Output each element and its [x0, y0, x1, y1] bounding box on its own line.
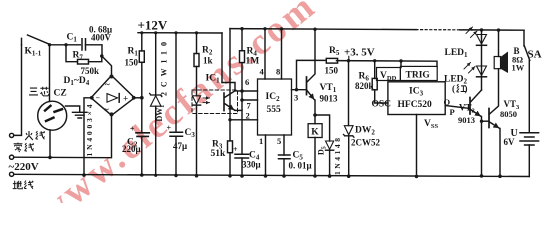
+3.5V rail — [337, 61, 438, 67]
pin 4 wire — [264, 29, 266, 79]
watermark diagonal text — [31, 0, 325, 232]
wire live terminal to switch column — [14, 45, 22, 136]
svg-text:CZ: CZ — [54, 89, 67, 99]
svg-text:+12V: +12V — [138, 18, 168, 33]
socket CZ circle — [38, 101, 67, 130]
svg-text:+: + — [123, 93, 128, 103]
svg-text:+: + — [130, 125, 135, 134]
LED2 (red) — [481, 45, 483, 77]
wire to bridge top — [102, 56, 112, 76]
IC3 HFC520 box — [388, 82, 445, 115]
svg-text:2CW52: 2CW52 — [351, 138, 380, 148]
battery U — [520, 133, 539, 145]
svg-text:1W: 1W — [512, 63, 525, 73]
node C1/R7 left — [64, 43, 67, 46]
svg-text:~: ~ — [104, 105, 109, 115]
svg-text:OSC: OSC — [372, 100, 392, 110]
chinese labels drawn as stroke glyphs — [13, 84, 466, 189]
resistor R2 — [196, 33, 198, 54]
diode D5 — [315, 115, 330, 141]
capacitor C4 — [235, 154, 249, 158]
svg-text:9013: 9013 — [458, 115, 475, 125]
node pin3 / R5 branch — [295, 88, 298, 91]
svg-text:5: 5 — [277, 136, 281, 146]
svg-text:+3. 5V: +3. 5V — [344, 47, 375, 59]
svg-text:750k: 750k — [81, 66, 100, 76]
label 红 (red) inside parens — [457, 84, 466, 92]
pin 5 wire / capacitor C5 — [283, 135, 285, 155]
svg-text:400V: 400V — [91, 33, 112, 43]
transistor VT2 — [469, 98, 471, 115]
terminal 地线 (earth) — [10, 172, 14, 176]
ground/bottom rail — [14, 174, 530, 176]
svg-text:1: 1 — [259, 136, 263, 146]
terminal 火线 (live) — [10, 133, 14, 137]
capacitor C1 — [82, 39, 86, 50]
bridge internal diode — [107, 94, 118, 103]
svg-text:~: ~ — [105, 80, 110, 90]
capacitor C3 — [175, 33, 177, 133]
svg-text:6V: 6V — [504, 137, 516, 147]
svg-text:HFC520: HFC520 — [398, 100, 433, 110]
+12V rail — [138, 32, 222, 34]
speaker B — [498, 30, 500, 56]
opto phototransistor — [223, 93, 225, 111]
wire switch to C1/R7 — [50, 44, 81, 46]
capacitor C2 — [141, 98, 143, 133]
socket slots — [45, 106, 62, 112]
TRIG box — [400, 66, 437, 80]
svg-text:K: K — [311, 128, 319, 138]
pin 3 wire to VT1 base — [292, 89, 307, 91]
wire col A (rail to pin2/R3) — [230, 29, 258, 120]
bridge rectifier D1~D4 — [91, 76, 135, 116]
zener DW1 — [155, 33, 157, 95]
svg-text:6: 6 — [245, 77, 249, 87]
node C1/R7 right — [100, 54, 104, 58]
resistor R3 — [229, 120, 231, 141]
svg-text:220μ: 220μ — [122, 144, 141, 154]
svg-text:9013: 9013 — [320, 94, 339, 104]
IC1 dashed box — [192, 90, 238, 114]
label 火线 (live wire) — [25, 131, 33, 140]
resistor R5 — [326, 58, 337, 63]
pin 8 wire — [281, 29, 283, 79]
VSS wire — [416, 115, 418, 177]
wire pin 6 — [242, 90, 258, 92]
main +6V top rail — [230, 29, 416, 30]
VDD drop wire — [400, 61, 402, 68]
svg-text:150: 150 — [325, 66, 339, 76]
+3.5V pointer arrow — [348, 56, 350, 60]
svg-text:555: 555 — [267, 105, 282, 115]
wire pin 7 — [242, 99, 258, 101]
svg-text:SA: SA — [528, 49, 542, 61]
node opto collector / pin6 — [240, 89, 244, 93]
opto light arrows — [203, 97, 210, 99]
node VT2 emitter to VT3 base — [480, 120, 483, 123]
bridge minus output wire — [84, 98, 91, 175]
node VT1 emitter / K / D5 — [313, 113, 317, 117]
svg-text:1k: 1k — [203, 56, 213, 66]
零线 neutral rail — [10, 155, 14, 159]
opto LED inside IC1 — [192, 96, 200, 104]
zener DW2 — [348, 61, 350, 126]
label 三芯 (three core) — [29, 88, 38, 95]
switch K1-1 — [22, 35, 50, 45]
resistor R6 — [374, 61, 376, 79]
svg-text:150: 150 — [125, 58, 139, 68]
label 零线 (neutral wire) — [14, 143, 23, 153]
wire C1 right — [86, 45, 103, 56]
IC2 555 box — [258, 79, 292, 135]
switch SA — [524, 30, 530, 131]
node socket neutral — [48, 156, 52, 160]
svg-text:+: + — [167, 124, 172, 133]
node bridge plus — [140, 96, 144, 100]
transistor VT1 — [306, 77, 308, 95]
svg-text:330μ: 330μ — [242, 160, 261, 170]
+12V rail drop to opto collector — [221, 33, 223, 83]
svg-text:−: − — [96, 93, 101, 102]
svg-text:0. 01μ: 0. 01μ — [289, 161, 312, 171]
svg-text:P: P — [450, 107, 455, 117]
O/P output wire — [445, 106, 470, 109]
node switch right — [48, 43, 51, 46]
svg-text:O: O — [444, 97, 451, 107]
svg-text:1M: 1M — [246, 57, 260, 67]
svg-text:+: + — [233, 145, 238, 154]
svg-text:8050: 8050 — [500, 109, 517, 119]
node bridge minus on ground rail — [82, 173, 86, 177]
svg-text:820k: 820k — [355, 81, 374, 91]
node opto emitter / pin7 — [240, 98, 244, 102]
socket earth symbol — [66, 106, 88, 118]
resistor R4 — [241, 29, 243, 51]
VDD box — [377, 68, 401, 81]
svg-text:51k: 51k — [211, 149, 227, 159]
label 地线 (earth wire) — [13, 181, 23, 189]
svg-text:2: 2 — [246, 111, 250, 121]
svg-text:TRIG: TRIG — [406, 71, 431, 81]
bridge plus output wire — [135, 97, 142, 99]
LED1 — [481, 30, 483, 45]
svg-text:(: ( — [452, 84, 455, 94]
transistor VT3 — [488, 109, 490, 128]
svg-text:8: 8 — [276, 67, 280, 77]
pin 1 wire — [265, 135, 267, 176]
svg-text:3: 3 — [294, 93, 298, 103]
resistor R7 — [66, 45, 78, 62]
resistor R1 — [141, 62, 143, 98]
wire pin3 up to R5 — [297, 60, 326, 89]
relay K — [314, 115, 316, 124]
svg-text:~220V: ~220V — [9, 161, 39, 173]
svg-text:47μ: 47μ — [173, 141, 187, 151]
